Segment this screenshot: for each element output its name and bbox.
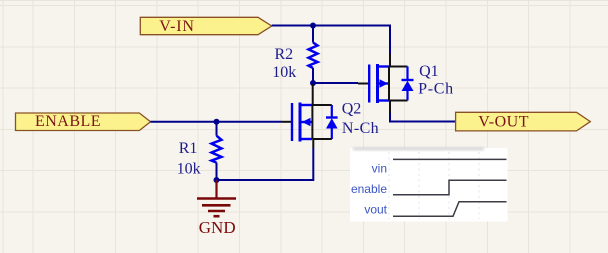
junction at R1 bottom / GND	[214, 177, 220, 183]
svg-text:vin: vin	[372, 161, 387, 175]
pin Q2 gate	[282, 121, 291, 123]
wire R1 top lead	[216, 122, 218, 136]
ground GND	[197, 199, 236, 217]
wire R2 top lead	[312, 26, 314, 43]
pin Q1 source (top)	[389, 54, 391, 67]
wire R1 bottom lead	[216, 163, 218, 180]
resistor R2	[309, 43, 318, 69]
junction at R2 bottom / Q2 drain	[310, 80, 316, 86]
resistor R1	[212, 136, 222, 163]
Q1 body diode connector bottom	[389, 100, 408, 102]
pin Q1 drain (bottom)	[389, 101, 391, 114]
port V-IN	[140, 17, 271, 35]
svg-text:GND: GND	[199, 218, 236, 237]
wire GND lead	[215, 180, 217, 199]
junction at R2 top	[310, 23, 316, 29]
waveform trace enable	[393, 180, 507, 195]
svg-text:vout: vout	[364, 203, 387, 217]
diode of Q1	[402, 67, 414, 101]
svg-text:P-Ch: P-Ch	[418, 81, 454, 98]
pin Q2 drain (top)	[312, 84, 314, 105]
svg-text:10k: 10k	[272, 64, 296, 81]
Q2 body diode connector top	[312, 104, 331, 106]
svg-text:10k: 10k	[177, 160, 201, 177]
diode of Q2	[326, 105, 338, 139]
pin Q1 gate	[358, 83, 368, 85]
svg-text:R2: R2	[274, 46, 293, 63]
port V-OUT	[456, 112, 591, 131]
svg-text:enable: enable	[351, 182, 387, 196]
svg-text:Q2: Q2	[342, 100, 362, 117]
waveform trace vin	[393, 158, 507, 160]
wire R2 bottom lead	[312, 68, 314, 83]
junction at R1 top	[214, 119, 220, 125]
svg-text:ENABLE: ENABLE	[35, 113, 101, 130]
transistor Q2	[292, 103, 312, 142]
Q1 body diode connector top	[389, 66, 408, 68]
wire V-IN to Q1 source	[272, 26, 390, 55]
waveform inset panel	[350, 147, 508, 222]
Q2 body diode connector bottom	[312, 138, 331, 140]
wire ENABLE to Q2 gate	[151, 121, 283, 123]
pin Q1 connector (source-drain-bulk)	[388, 67, 390, 101]
transistor Q1	[369, 64, 389, 103]
wire R2 bottom to Q1 gate	[313, 82, 358, 84]
pin Q2 connector (source-drain-bulk)	[311, 105, 313, 139]
svg-text:R1: R1	[179, 140, 198, 157]
svg-text:V-IN: V-IN	[159, 18, 195, 35]
svg-text:N-Ch: N-Ch	[342, 120, 379, 137]
svg-text:Q1: Q1	[419, 63, 439, 80]
wire Q1 drain to V-OUT	[390, 113, 456, 122]
svg-text:V-OUT: V-OUT	[478, 114, 529, 131]
pin Q2 source (bottom)	[312, 139, 314, 148]
port ENABLE	[16, 113, 151, 131]
waveform trace vout	[393, 202, 507, 217]
wire R1 bottom to Q2 source	[217, 148, 314, 180]
